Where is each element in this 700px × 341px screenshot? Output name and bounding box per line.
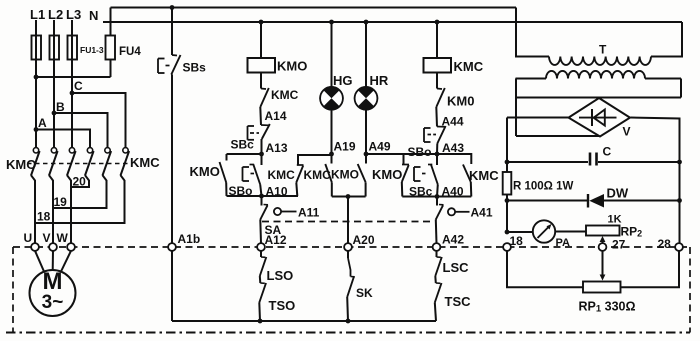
node 28 terminal [675,243,683,251]
wire rectifier top feed [516,97,681,99]
svg-text:19: 19 [54,195,68,209]
svg-text:A11: A11 [298,206,320,220]
svg-text:V: V [43,231,51,245]
svg-text:TSO: TSO [269,298,296,313]
wire bus to transformer primary [516,8,549,57]
lamp HG [320,87,343,110]
svg-text:L3: L3 [66,7,81,22]
wire N to contact area [36,76,111,78]
svg-text:KMC: KMC [304,168,332,182]
svg-text:A19: A19 [334,140,356,154]
node A40 [435,194,440,199]
wire KMO coil feed [260,22,262,58]
wire 27 to RP1 wiper [602,251,604,276]
svg-text:KMC: KMC [130,155,160,170]
wire dashed boundary terminal line [13,246,690,248]
svg-text:A: A [38,116,47,130]
switch SK [347,251,349,258]
node W terminal [67,243,75,251]
wire A44 segment [435,107,438,127]
wire U drop [34,223,36,243]
svg-text:C: C [603,145,612,159]
wire pole2-pole5 rail 19 [53,180,107,208]
wire L1 vertical [35,20,37,147]
svg-text:RP1 330Ω: RP1 330Ω [579,300,636,315]
op coil KMO [248,58,276,73]
fuse FU1 on L1 [32,36,42,60]
wire R column upper [506,118,508,173]
lamp HR [355,87,378,110]
svg-text:C: C [74,79,83,93]
wire coil to KMC interlock [260,73,262,85]
wire dashed box right edge [689,247,691,333]
svg-text:A10: A10 [266,185,288,199]
svg-text:T: T [599,43,607,57]
contactor KMO main pole 1 [35,146,37,149]
svg-text:KMC: KMC [454,59,484,74]
svg-text:SBc: SBc [231,138,255,152]
transformer T primary winding [549,57,651,65]
svg-text:KMO: KMO [277,59,307,74]
wire secondary left rail [516,78,547,80]
wire A14 segment [259,107,262,125]
svg-text:18: 18 [37,210,51,224]
svg-text:28: 28 [658,237,672,251]
svg-text:L1: L1 [30,7,45,22]
wire secondary right drop [680,79,682,98]
wire lamp feet rail [332,196,366,198]
node DW line right junction [677,198,682,203]
wire rectifier bottom feed [516,135,600,137]
svg-text:R 100Ω 1W: R 100Ω 1W [513,181,573,193]
wire tap A [36,130,90,148]
node C line right junction [677,160,682,165]
svg-text:U: U [24,231,33,245]
wire motor lead W [61,251,71,272]
contact KMO lamp HG NO [331,154,333,164]
node 27 terminal [599,243,607,251]
motor M 3~ circle [30,270,76,316]
diode DW [507,200,588,202]
contact KMO selfhold NO [226,154,228,161]
node V terminal [49,243,57,251]
node bus-LSO junction [258,319,263,324]
wire tap B [54,113,108,147]
wire rail A13 left [227,153,262,155]
node U terminal [31,243,39,251]
contactor KMC main pole 3 [125,146,127,149]
svg-text:SBo: SBo [408,145,432,159]
wire SBs column upper [171,8,173,56]
svg-text:A43: A43 [442,141,464,155]
contactor KMC main pole 2 [107,146,109,149]
node A1b terminal [168,243,176,251]
wire motor lead V [52,251,54,270]
node top bus / SBs branch junction [170,5,175,10]
wire HG to A19 [331,110,333,154]
rectifier V bridge diamond [569,98,631,137]
node N-KMO branch junction [259,20,264,25]
contactor KMO main pole 3 [71,146,73,149]
wire rectifier output right [631,118,680,244]
contactor KMC main pole 1 [89,146,91,149]
svg-text:1K: 1K [608,214,622,226]
svg-text:18: 18 [510,234,524,248]
wire top supply bus [111,7,517,9]
node PA line left junction [505,230,510,235]
node C tap junction [70,91,75,96]
wire PA line right [555,231,586,233]
svg-text:FU1-3: FU1-3 [80,45,104,55]
limit switch TSO [259,276,262,283]
svg-text:KM0: KM0 [447,94,474,109]
svg-text:TSC: TSC [445,294,472,309]
wire V drop [52,208,54,243]
wire drop to A20 [347,197,349,244]
wire rail A40 [402,196,471,198]
wire KMC coil feed [436,22,438,58]
node B tap junction [52,111,57,116]
svg-text:A12: A12 [265,233,287,247]
node A42 terminal [433,243,441,251]
node A19 [329,152,334,157]
node A41 terminal [448,208,455,215]
svg-text:A14: A14 [265,109,287,123]
svg-text:KMC: KMC [268,168,296,182]
contact KM0 interlock NC [436,73,438,89]
svg-text:HG: HG [333,73,353,88]
contact KMC interlock NC [260,73,262,89]
limit switch LSC [436,251,438,257]
wire rail A49-A43 [366,153,437,155]
wire L3 vertical [71,20,73,147]
wire dashed A11 link line [262,221,431,223]
svg-text:LSC: LSC [443,260,470,275]
potentiometer RP1 330ohm [583,282,621,293]
svg-text:KMO: KMO [6,157,36,172]
meter PA [533,220,555,242]
svg-text:KMC: KMC [469,168,499,183]
svg-text:KMC: KMC [271,88,299,102]
node A49 [364,152,369,157]
contact KMC lamp-interlock NO [298,155,332,165]
wire KMO-KMC mechanical link dashed [27,163,128,165]
wire L2 vertical [53,20,55,147]
button SBs stop [172,54,177,57]
button SBc start [261,124,269,126]
node A10 [259,194,264,199]
svg-text:M: M [43,268,63,295]
svg-text:FU4: FU4 [119,46,141,58]
fuse FU2 on L2 [50,36,60,60]
wire rail A10 [227,195,299,197]
button SBc right [436,154,438,165]
fuse FU4 on N [106,36,116,60]
svg-text:A49: A49 [369,140,391,154]
wire R to DW line [506,195,508,233]
capacitor C [507,161,588,163]
node N-KMC branch junction [435,20,440,25]
transformer T secondary winding [546,71,645,79]
svg-text:3~: 3~ [42,292,64,313]
switch SA close side [436,197,438,206]
potentiometer RP2 1K [586,226,620,236]
node C line left junction [505,160,510,165]
wire HG feed [331,22,333,87]
svg-text:W: W [57,231,69,245]
svg-text:27: 27 [612,238,626,252]
node A11 terminal [274,208,281,215]
svg-text:KMO: KMO [331,168,359,182]
svg-text:A42: A42 [442,233,464,247]
contact KMO close-interlock NO [403,154,405,164]
contact KMC selfhold NO [437,154,471,164]
button SBo right [437,126,445,128]
wire pole1-pole6 rail 18 [35,180,125,223]
svg-text:L2: L2 [48,7,63,22]
svg-text:SBs: SBs [183,61,207,75]
wire dashed box bottom edge [6,332,690,334]
wire 28 to RP1 [621,251,680,287]
wire HR to A49 [365,110,367,154]
svg-text:DW: DW [607,186,629,201]
svg-text:A41: A41 [471,206,493,220]
button SBo stop mid [261,154,263,165]
svg-text:LSO: LSO [267,268,294,283]
wire control left drop [171,251,173,321]
node A12 terminal [257,243,265,251]
svg-text:A20: A20 [353,233,375,247]
node lamp rail junction [346,194,351,199]
op coil KMC [424,58,452,73]
wire control bottom bus [172,320,436,322]
node A20 terminal [344,243,352,251]
svg-text:N: N [89,8,98,23]
svg-text:20: 20 [73,175,87,189]
contactor KMO main pole 2 [53,146,55,149]
node A tap junction [34,127,39,132]
wire rectifier left feed [507,117,568,119]
svg-text:A40: A40 [442,185,464,199]
wire motor lead U [35,251,44,272]
wire SBs column lower [171,75,173,244]
wire coil to KM0 interlock [436,73,438,85]
node DW line left junction [505,198,510,203]
wire 18 to RP1 [507,251,583,287]
contact KMO lamp HR NO [365,154,367,164]
wire dashed box left edge [12,247,14,333]
node 18 terminal [503,243,511,251]
resistor R 100ohm [503,172,512,195]
svg-text:KMO: KMO [190,164,220,179]
wire to A13 [261,139,263,154]
wire pole3-pole4 rail 20 [71,180,89,187]
limit switch TSC [434,276,437,283]
node N-HR junction [364,20,369,25]
node A43 [435,152,440,157]
node A13 [259,152,264,157]
svg-text:A13: A13 [266,141,288,155]
node N-L1 junction [34,75,39,80]
node bus-SK junction [346,319,351,324]
wire N line [103,21,682,23]
switch SA [261,196,263,206]
svg-text:V: V [623,125,631,139]
wire PA line left [507,231,533,233]
svg-text:B: B [56,100,65,114]
wire primary to N [651,22,682,57]
svg-text:A1b: A1b [178,232,201,246]
node N-HG junction [329,20,334,25]
wire to A43 [436,144,438,155]
wire tap C [72,93,126,147]
svg-text:PA: PA [556,237,571,249]
wire RP2 wiper arrow [602,239,604,243]
fuse FU3 on L3 [68,36,78,60]
svg-text:SK: SK [356,286,373,300]
wire W drop [70,187,72,243]
wire secondary right rail [645,78,681,80]
wire FU4 drop from bus [110,8,112,36]
wire HR feed [365,22,367,87]
wire secondary left drop [515,79,517,137]
svg-text:KMO: KMO [372,167,402,182]
svg-text:HR: HR [370,73,389,88]
limit switch LSO [260,251,262,257]
